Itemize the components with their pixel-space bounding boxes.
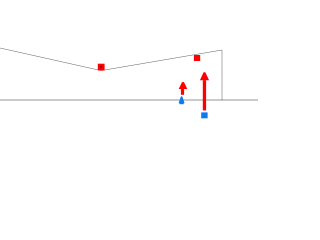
node B: red square marker upper right [194, 55, 200, 61]
vector arrow: small blue up arrow [179, 96, 185, 104]
wire: incline left segment [0, 48, 101, 71]
node C: blue square marker at vector tail [201, 112, 207, 118]
wire: ground line [0, 99, 258, 101]
node A: red block on incline [98, 64, 105, 71]
wire: incline right segment [101, 50, 222, 71]
vector arrow: tall red up arrow [200, 72, 209, 110]
vector arrow: medium red up arrow [179, 82, 188, 95]
wire: cliff wall vertical [221, 50, 223, 100]
